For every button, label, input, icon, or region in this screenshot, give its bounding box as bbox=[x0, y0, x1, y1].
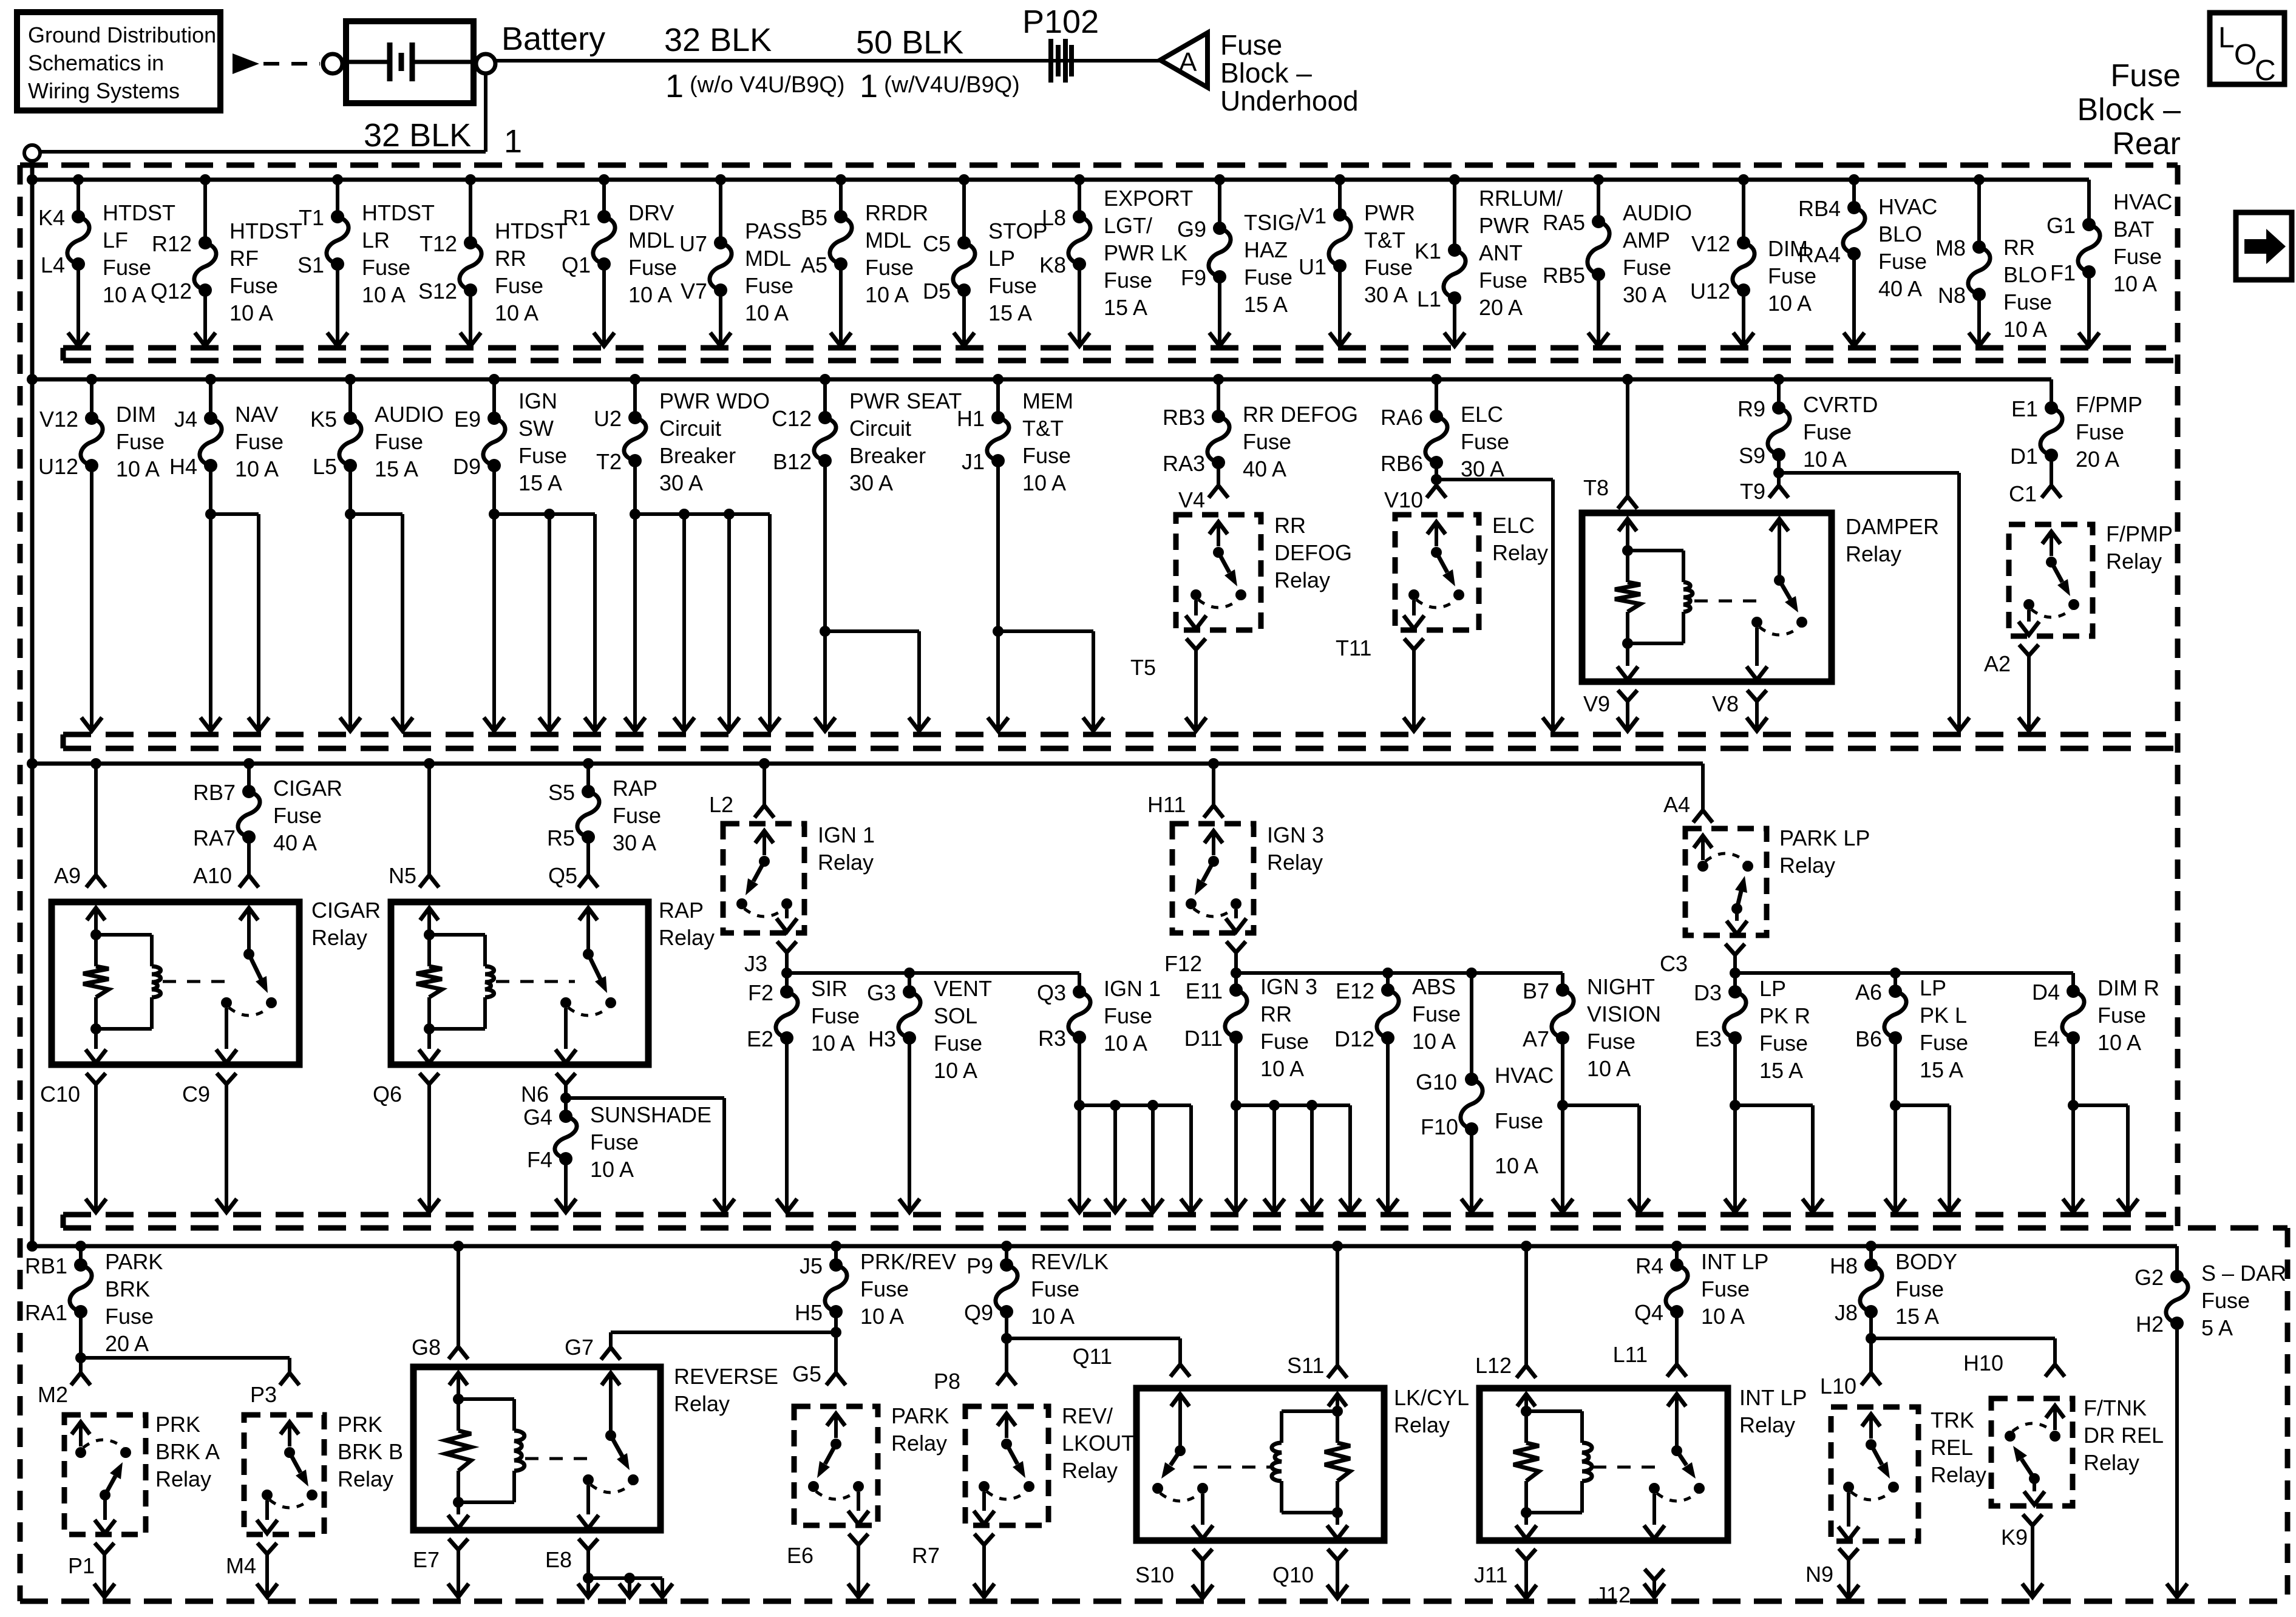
PRK BRK A relay output P1 bbox=[68, 1543, 115, 1597]
svg-text:Fuse: Fuse bbox=[103, 255, 151, 280]
REVERSE relay switch output E8 split three ways bbox=[545, 1539, 673, 1597]
svg-text:Fuse: Fuse bbox=[2003, 290, 2052, 314]
svg-text:10 A: 10 A bbox=[745, 300, 789, 325]
svg-text:ABS: ABS bbox=[1412, 974, 1456, 999]
SIR fuse 10A bbox=[747, 976, 860, 1056]
PWR SEAT output split wires bbox=[815, 461, 929, 731]
NIGHT VISION fuse output split bbox=[1552, 1038, 1649, 1212]
svg-text:10 A: 10 A bbox=[934, 1058, 977, 1083]
ELC fuse 30A bbox=[1381, 402, 1509, 481]
svg-text:MDL: MDL bbox=[745, 246, 791, 271]
HVAC fuse output arrow bbox=[1461, 1129, 1482, 1212]
output wire/arrow of HVAC BLO fuse 40A bbox=[1844, 254, 1864, 346]
svg-text:L10: L10 bbox=[1820, 1374, 1856, 1398]
svg-text:G9: G9 bbox=[1177, 217, 1206, 242]
svg-text:L2: L2 bbox=[709, 792, 733, 817]
svg-text:PK R: PK R bbox=[1759, 1003, 1810, 1028]
svg-text:LKOUT: LKOUT bbox=[1062, 1431, 1135, 1456]
svg-text:BLO: BLO bbox=[2003, 262, 2047, 287]
svg-text:Fuse: Fuse bbox=[1243, 429, 1291, 454]
svg-text:Underhood: Underhood bbox=[1220, 85, 1359, 117]
svg-text:TSIG/: TSIG/ bbox=[1244, 210, 1301, 235]
wire from bus 1 to STOP LP fuse 15A bbox=[959, 174, 970, 243]
svg-text:DAMPER: DAMPER bbox=[1846, 514, 1939, 539]
svg-text:ELC: ELC bbox=[1461, 402, 1503, 427]
svg-text:N9: N9 bbox=[1805, 1562, 1833, 1587]
dashed wire to battery bbox=[263, 62, 320, 66]
DAMPER coil output V9 bbox=[1583, 690, 1638, 731]
svg-text:C: C bbox=[2255, 55, 2276, 87]
svg-text:Fuse: Fuse bbox=[860, 1276, 909, 1301]
svg-text:S – DAR: S – DAR bbox=[2201, 1261, 2286, 1286]
svg-text:J1: J1 bbox=[962, 449, 985, 474]
svg-text:30 A: 30 A bbox=[1461, 456, 1504, 481]
wire from bus 1 to RR BLO fuse 10A bbox=[1974, 174, 1985, 247]
svg-text:E12: E12 bbox=[1336, 978, 1374, 1003]
svg-text:PASS: PASS bbox=[745, 219, 801, 243]
L2 wire from bus 3 to IGN 1 relay bbox=[709, 758, 774, 818]
ABS fuse 10A bbox=[1334, 974, 1461, 1054]
svg-text:RAP: RAP bbox=[613, 776, 657, 801]
svg-text:40 A: 40 A bbox=[273, 830, 317, 855]
J3 distribution wire to SIR / VENT SOL / IGN 1 fuses bbox=[787, 968, 1079, 992]
svg-text:T8: T8 bbox=[1583, 475, 1609, 500]
svg-text:RA3: RA3 bbox=[1163, 451, 1205, 476]
svg-text:RR DEFOG: RR DEFOG bbox=[1243, 402, 1358, 427]
output wire/arrow of RRDR MDL fuse 10A bbox=[830, 264, 851, 346]
svg-text:Q9: Q9 bbox=[964, 1300, 993, 1325]
left feed rail bbox=[30, 159, 35, 1246]
svg-text:Fuse: Fuse bbox=[495, 273, 543, 298]
svg-text:RB1: RB1 bbox=[25, 1253, 67, 1278]
wire from bus 2 to RR DEFOG fuse 40A bbox=[1213, 374, 1224, 416]
wire from bus 1 to DIM fuse 10A (row1) bbox=[1738, 174, 1749, 243]
wire from bus 4 to INT LP fuse bbox=[1671, 1241, 1682, 1265]
relay IGN 1 bbox=[723, 822, 875, 933]
svg-text:HVAC: HVAC bbox=[2113, 189, 2172, 214]
svg-text:P8: P8 bbox=[934, 1369, 960, 1394]
svg-text:Fuse: Fuse bbox=[865, 255, 914, 280]
svg-text:10 A: 10 A bbox=[811, 1031, 855, 1056]
svg-text:L4: L4 bbox=[41, 253, 65, 277]
svg-text:U12: U12 bbox=[1690, 279, 1730, 303]
svg-text:LF: LF bbox=[103, 228, 128, 253]
svg-text:HAZ: HAZ bbox=[1244, 237, 1288, 262]
svg-text:J12: J12 bbox=[1595, 1582, 1631, 1607]
wire from bus 2 to AUDIO fuse 15A bbox=[345, 374, 356, 418]
HTDST LF fuse 10A bbox=[38, 200, 175, 307]
PWR WDO output split wires bbox=[625, 461, 780, 731]
svg-text:K4: K4 bbox=[38, 205, 65, 230]
svg-text:R3: R3 bbox=[1038, 1026, 1066, 1051]
DRV MDL fuse 10A bbox=[562, 200, 677, 307]
relay DAMPER bbox=[1582, 513, 1939, 682]
svg-text:J8: J8 bbox=[1835, 1300, 1858, 1325]
output wire/arrow of HTDST RR fuse 10A bbox=[460, 290, 481, 346]
svg-text:MDL: MDL bbox=[628, 228, 674, 253]
svg-text:T&T: T&T bbox=[1022, 416, 1064, 441]
svg-text:Relay: Relay bbox=[1394, 1412, 1450, 1437]
wire arrow from ground distribution bbox=[233, 53, 259, 74]
svg-text:DIM: DIM bbox=[116, 402, 156, 427]
svg-text:Relay: Relay bbox=[2084, 1450, 2139, 1475]
svg-text:Relay: Relay bbox=[674, 1391, 730, 1416]
svg-text:10 A: 10 A bbox=[116, 456, 160, 481]
IGN 3 RR fuse output fan-out bbox=[1226, 1037, 1360, 1212]
svg-text:NIGHT: NIGHT bbox=[1587, 974, 1655, 999]
svg-text:(w/V4U/B9Q): (w/V4U/B9Q) bbox=[884, 72, 1020, 98]
PWR SEAT circuit breaker 30A bbox=[772, 388, 962, 495]
svg-text:LK/CYL: LK/CYL bbox=[1394, 1385, 1469, 1410]
svg-text:Fuse: Fuse bbox=[1768, 263, 1816, 288]
relay PRK BRK A bbox=[64, 1412, 220, 1534]
CIGAR relay switch output C9 bbox=[182, 1073, 237, 1212]
relay RAP bbox=[391, 898, 715, 1065]
svg-text:M4: M4 bbox=[226, 1553, 256, 1578]
bus bar row 1 bbox=[32, 180, 2089, 225]
PWR T&T fuse 30A bbox=[1299, 200, 1415, 307]
IGN 3 relay output F12 bbox=[1164, 941, 1246, 978]
svg-text:Fuse: Fuse bbox=[2113, 244, 2162, 269]
svg-text:H4: H4 bbox=[169, 454, 197, 479]
wire from bus 1 to PASS MDL fuse 10A bbox=[715, 174, 726, 243]
svg-text:Q3: Q3 bbox=[1037, 980, 1066, 1005]
svg-text:DEFOG: DEFOG bbox=[1274, 540, 1352, 565]
svg-text:Fuse: Fuse bbox=[1587, 1029, 1635, 1054]
svg-text:V12: V12 bbox=[1691, 231, 1730, 256]
svg-text:BAT: BAT bbox=[2113, 217, 2154, 242]
svg-text:U2: U2 bbox=[594, 406, 622, 431]
svg-text:F12: F12 bbox=[1164, 951, 1202, 976]
svg-text:K1: K1 bbox=[1415, 239, 1441, 263]
L12 wire from bus 4 to INT LP relay coil bbox=[1475, 1241, 1536, 1378]
svg-text:R4: R4 bbox=[1635, 1253, 1663, 1278]
S11 wire from bus 4 to LK/CYL relay coil bbox=[1287, 1241, 1347, 1378]
svg-text:J4: J4 bbox=[174, 407, 197, 432]
wire from bus 1 to HVAC BLO fuse 40A bbox=[1849, 174, 1860, 208]
svg-text:LP: LP bbox=[988, 246, 1015, 271]
svg-text:LP: LP bbox=[1759, 976, 1786, 1001]
wire from bus 2 to ELC fuse 30A bbox=[1431, 374, 1442, 416]
svg-text:Relay: Relay bbox=[1739, 1412, 1795, 1437]
svg-text:SUNSHADE: SUNSHADE bbox=[590, 1102, 712, 1127]
wire from bus 1 to RRLUM/PWR ANT fuse 20A bbox=[1449, 174, 1460, 250]
svg-text:P1: P1 bbox=[68, 1553, 95, 1578]
svg-text:P9: P9 bbox=[966, 1253, 993, 1278]
PWR WDO circuit breaker 30A bbox=[594, 388, 770, 495]
HTDST RR fuse 10A bbox=[418, 219, 568, 325]
svg-text:Wiring Systems: Wiring Systems bbox=[28, 78, 180, 103]
BODY fuse 15A bbox=[1830, 1249, 1957, 1329]
VENT SOL fuse 10A bbox=[867, 976, 992, 1083]
LK/CYL relay coil output Q10 bbox=[1272, 1549, 1348, 1598]
svg-text:DIM R: DIM R bbox=[2097, 975, 2159, 1000]
svg-text:30 A: 30 A bbox=[1623, 282, 1666, 307]
svg-text:Fuse: Fuse bbox=[1803, 419, 1852, 444]
svg-text:10 A: 10 A bbox=[1768, 291, 1812, 316]
svg-text:RR: RR bbox=[495, 246, 526, 271]
N5 wire from bus 3 to RAP relay coil bbox=[389, 758, 439, 888]
svg-text:Relay: Relay bbox=[155, 1466, 211, 1491]
svg-text:Fuse: Fuse bbox=[1031, 1276, 1079, 1301]
relay REVERSE bbox=[413, 1364, 778, 1530]
svg-text:Relay: Relay bbox=[1274, 568, 1330, 592]
wire from bus 2 to MEM T&T fuse 10A bbox=[993, 374, 1004, 418]
svg-text:10 A: 10 A bbox=[235, 456, 279, 481]
svg-text:H3: H3 bbox=[868, 1026, 896, 1051]
svg-text:Fuse: Fuse bbox=[1412, 1002, 1461, 1026]
relay TRK REL bbox=[1831, 1407, 1986, 1541]
svg-text:Fuse: Fuse bbox=[1461, 429, 1509, 454]
svg-text:N6: N6 bbox=[521, 1082, 549, 1107]
svg-text:Relay: Relay bbox=[1779, 853, 1835, 878]
svg-text:10 A: 10 A bbox=[1701, 1304, 1745, 1329]
svg-text:15 A: 15 A bbox=[1759, 1058, 1803, 1083]
svg-text:T1: T1 bbox=[299, 205, 324, 230]
svg-text:1: 1 bbox=[504, 123, 522, 160]
svg-text:CIGAR: CIGAR bbox=[311, 898, 381, 923]
svg-text:10 A: 10 A bbox=[362, 282, 406, 307]
svg-text:A5: A5 bbox=[801, 253, 827, 277]
svg-text:RR: RR bbox=[1260, 1002, 1292, 1026]
svg-text:20 A: 20 A bbox=[1479, 295, 1523, 320]
svg-text:K5: K5 bbox=[310, 407, 337, 432]
RRLUM/PWR ANT fuse 20A bbox=[1415, 186, 1563, 320]
svg-text:HVAC: HVAC bbox=[1495, 1063, 1554, 1088]
BODY fuse output L10 and H10 branch bbox=[1820, 1312, 2065, 1398]
DIM R fuse 10A bbox=[2032, 975, 2159, 1055]
svg-text:CVRTD: CVRTD bbox=[1803, 392, 1878, 417]
svg-text:15 A: 15 A bbox=[1895, 1304, 1939, 1329]
PARK relay output E6 bbox=[787, 1534, 869, 1597]
svg-text:PRK: PRK bbox=[155, 1412, 200, 1437]
A4 wire from bus 3 to PARK LP relay bbox=[1663, 792, 1713, 822]
svg-text:Fuse: Fuse bbox=[1623, 255, 1671, 280]
svg-text:15 A: 15 A bbox=[1104, 295, 1147, 320]
svg-text:Block –: Block – bbox=[1220, 57, 1312, 89]
svg-text:15 A: 15 A bbox=[518, 470, 562, 495]
wire from bus 2 to NAV fuse 10A bbox=[205, 374, 216, 418]
svg-text:D12: D12 bbox=[1334, 1026, 1374, 1051]
svg-text:SOL: SOL bbox=[934, 1003, 977, 1028]
wire from bus 2 to PWR SEAT circuit breaker 30A bbox=[820, 374, 830, 418]
svg-text:CIGAR: CIGAR bbox=[273, 776, 342, 801]
svg-text:A: A bbox=[1179, 47, 1197, 77]
svg-text:R5: R5 bbox=[547, 825, 575, 850]
svg-text:10 A: 10 A bbox=[865, 282, 909, 307]
svg-text:B7: B7 bbox=[1523, 978, 1549, 1003]
wire from bus 4 to PRK/REV fuse bbox=[830, 1241, 841, 1265]
svg-text:M8: M8 bbox=[1935, 236, 1966, 260]
svg-text:BODY: BODY bbox=[1895, 1249, 1957, 1274]
svg-text:NAV: NAV bbox=[235, 402, 278, 427]
svg-text:40 A: 40 A bbox=[1243, 456, 1286, 481]
svg-text:30 A: 30 A bbox=[849, 470, 893, 495]
svg-text:Fuse: Fuse bbox=[116, 429, 165, 454]
wire 32 BLK battery to fuse block rear bbox=[32, 73, 486, 152]
bus bar row 3 bbox=[32, 764, 1703, 809]
svg-text:T12: T12 bbox=[419, 231, 457, 256]
DIM row2 output arrow bbox=[81, 466, 102, 731]
svg-text:C9: C9 bbox=[182, 1082, 210, 1107]
H11 wire from bus 3 to IGN 3 relay bbox=[1147, 758, 1223, 818]
svg-text:A2: A2 bbox=[1984, 651, 2011, 676]
svg-text:H10: H10 bbox=[1963, 1351, 2003, 1375]
relay ELC bbox=[1395, 513, 1548, 630]
svg-text:Fuse: Fuse bbox=[2076, 419, 2124, 444]
svg-text:P3: P3 bbox=[250, 1382, 277, 1407]
relay PARK bbox=[794, 1403, 949, 1525]
svg-text:PWR: PWR bbox=[1479, 213, 1530, 238]
svg-text:DR REL: DR REL bbox=[2084, 1423, 2164, 1448]
svg-text:E4: E4 bbox=[2033, 1026, 2060, 1051]
svg-text:RA6: RA6 bbox=[1381, 405, 1423, 430]
HVAC fuse 10A bbox=[1416, 1063, 1554, 1178]
DIM fuse 10A (row2) bbox=[38, 402, 165, 481]
svg-text:Fuse: Fuse bbox=[1895, 1276, 1944, 1301]
output wire/arrow of HTDST LF fuse 10A bbox=[68, 264, 89, 346]
svg-text:10 A: 10 A bbox=[1104, 1031, 1147, 1056]
svg-text:S1: S1 bbox=[297, 253, 324, 277]
relay PARK LP bbox=[1685, 825, 1870, 935]
bus bar row 2 bbox=[32, 379, 2051, 408]
svg-text:O: O bbox=[2234, 39, 2257, 71]
svg-text:L1: L1 bbox=[1417, 286, 1441, 311]
svg-text:G4: G4 bbox=[523, 1105, 552, 1130]
IGN 3 RR fuse 10A bbox=[1184, 974, 1317, 1081]
F12 distribution wire to IGN 3 RR / ABS / HVAC / NIGHT VISION fuses bbox=[1236, 968, 1563, 1079]
svg-text:10 A: 10 A bbox=[2097, 1030, 2141, 1055]
svg-text:Relay: Relay bbox=[659, 925, 715, 950]
svg-text:Fuse: Fuse bbox=[1701, 1276, 1750, 1301]
svg-text:HTDST: HTDST bbox=[103, 200, 175, 225]
svg-text:AMP: AMP bbox=[1623, 228, 1670, 253]
wire from bus 1 to HTDST LF fuse 10A bbox=[73, 174, 84, 217]
svg-text:Fuse: Fuse bbox=[229, 273, 278, 298]
wire from bus 2 to IGN SW fuse 15A bbox=[489, 374, 500, 418]
svg-text:30 A: 30 A bbox=[613, 830, 656, 855]
svg-text:IGN: IGN bbox=[518, 388, 557, 413]
svg-text:REV/LK: REV/LK bbox=[1031, 1249, 1109, 1274]
svg-text:G3: G3 bbox=[867, 980, 896, 1005]
svg-text:A6: A6 bbox=[1855, 980, 1882, 1005]
wire from bus 2 to F/PMP fuse 20A bbox=[2050, 379, 2053, 408]
battery right terminal bbox=[476, 54, 495, 73]
svg-text:RB6: RB6 bbox=[1381, 451, 1423, 476]
svg-text:PWR: PWR bbox=[1364, 200, 1415, 225]
wire from bus 3 to CIGAR fuse bbox=[243, 758, 254, 792]
svg-text:AUDIO: AUDIO bbox=[375, 402, 444, 427]
svg-text:15 A: 15 A bbox=[1920, 1057, 1963, 1082]
svg-text:RA4: RA4 bbox=[1798, 242, 1841, 267]
CIGAR relay coil output C10 bbox=[40, 1073, 106, 1212]
svg-text:Fuse: Fuse bbox=[811, 1003, 860, 1028]
svg-text:Relay: Relay bbox=[2106, 549, 2162, 574]
svg-text:Fuse: Fuse bbox=[105, 1304, 154, 1329]
svg-text:PARK LP: PARK LP bbox=[1779, 825, 1870, 850]
svg-text:P102: P102 bbox=[1022, 4, 1099, 40]
F/TNK DR REL relay output K9 bbox=[2001, 1514, 2043, 1597]
svg-text:Fuse: Fuse bbox=[1920, 1030, 1968, 1055]
terminal ring at fuse block rear feed bbox=[24, 145, 40, 161]
VENT SOL fuse output arrow bbox=[899, 1038, 920, 1212]
svg-text:1: 1 bbox=[665, 68, 684, 104]
STOP LP fuse 15A bbox=[923, 219, 1047, 325]
svg-text:30 A: 30 A bbox=[659, 470, 703, 495]
svg-text:10 A: 10 A bbox=[103, 282, 146, 307]
svg-text:10 A: 10 A bbox=[628, 282, 672, 307]
svg-text:REL: REL bbox=[1931, 1435, 1973, 1460]
svg-text:32 BLK: 32 BLK bbox=[664, 22, 772, 58]
svg-text:MEM: MEM bbox=[1022, 388, 1073, 413]
svg-text:Q11: Q11 bbox=[1073, 1344, 1112, 1369]
EXPORT LGT/PWR LK fuse 15A bbox=[1039, 186, 1193, 320]
svg-text:RA7: RA7 bbox=[193, 825, 236, 850]
wire from bus 1 to HTDST RF fuse 10A bbox=[200, 174, 211, 243]
svg-text:G7: G7 bbox=[565, 1335, 594, 1360]
svg-text:R1: R1 bbox=[563, 205, 591, 230]
svg-text:D5: D5 bbox=[923, 279, 951, 303]
wire from bus 1 to EXPORT LGT/PWR LK fuse 15A bbox=[1074, 174, 1085, 217]
svg-text:L: L bbox=[2218, 22, 2235, 54]
svg-text:U7: U7 bbox=[679, 231, 707, 256]
svg-text:D1: D1 bbox=[2010, 444, 2038, 469]
svg-text:F10: F10 bbox=[1421, 1114, 1458, 1139]
RRDR MDL fuse 10A bbox=[801, 200, 928, 307]
wire from bus 3 to RAP fuse bbox=[583, 758, 594, 792]
svg-text:1: 1 bbox=[860, 68, 878, 104]
T8 wire from bus 2 to DAMPER relay coil bbox=[1583, 374, 1637, 509]
off-page triangle A to Fuse Block Underhood bbox=[1160, 33, 1207, 87]
wire from bus 4 to REV/LK fuse bbox=[1001, 1241, 1012, 1265]
svg-text:IGN 3: IGN 3 bbox=[1267, 822, 1324, 847]
REV/LK fuse 10A bbox=[964, 1249, 1109, 1329]
svg-text:Q12: Q12 bbox=[151, 279, 192, 303]
svg-text:E7: E7 bbox=[413, 1547, 440, 1572]
svg-text:Fuse: Fuse bbox=[1364, 255, 1413, 280]
svg-text:E8: E8 bbox=[545, 1547, 572, 1572]
PARK BRK fuse 20A bbox=[25, 1249, 163, 1356]
svg-text:Fuse: Fuse bbox=[934, 1031, 982, 1056]
PASS MDL fuse 10A bbox=[679, 219, 801, 325]
svg-text:F1: F1 bbox=[2050, 260, 2076, 285]
INT LP fuse 10A bbox=[1634, 1249, 1768, 1329]
A9 wire from bus 3 to CIGAR relay coil bbox=[54, 758, 106, 888]
svg-text:10 A: 10 A bbox=[495, 300, 538, 325]
output wire/arrow of DRV MDL fuse 10A bbox=[594, 264, 614, 346]
svg-text:Relay: Relay bbox=[1492, 540, 1548, 565]
ELC relay output T11 bbox=[1336, 636, 1424, 731]
svg-text:A10: A10 bbox=[193, 863, 232, 888]
svg-text:Fuse: Fuse bbox=[1495, 1108, 1543, 1133]
svg-text:10 A: 10 A bbox=[2113, 271, 2157, 296]
svg-text:A4: A4 bbox=[1663, 792, 1690, 817]
ABS fuse output arrow bbox=[1377, 1038, 1398, 1212]
svg-text:Q1: Q1 bbox=[562, 253, 591, 277]
svg-text:Fuse: Fuse bbox=[1244, 265, 1292, 290]
svg-text:AUDIO: AUDIO bbox=[1623, 200, 1692, 225]
svg-text:Fuse: Fuse bbox=[375, 429, 423, 454]
svg-text:H1: H1 bbox=[957, 406, 985, 431]
svg-text:MDL: MDL bbox=[865, 228, 911, 253]
battery B+ bbox=[346, 21, 474, 103]
AUDIO fuse 15A bbox=[310, 402, 444, 481]
wire from bus 1 to HVAC BAT fuse 10A bbox=[2087, 180, 2091, 225]
output wire/arrow of RR BLO fuse 10A bbox=[1969, 294, 1989, 346]
output wire/arrow of DIM fuse 10A (row1) bbox=[1733, 290, 1754, 346]
svg-text:PK L: PK L bbox=[1920, 1003, 1967, 1028]
relay REV/LKOUT bbox=[965, 1403, 1135, 1525]
